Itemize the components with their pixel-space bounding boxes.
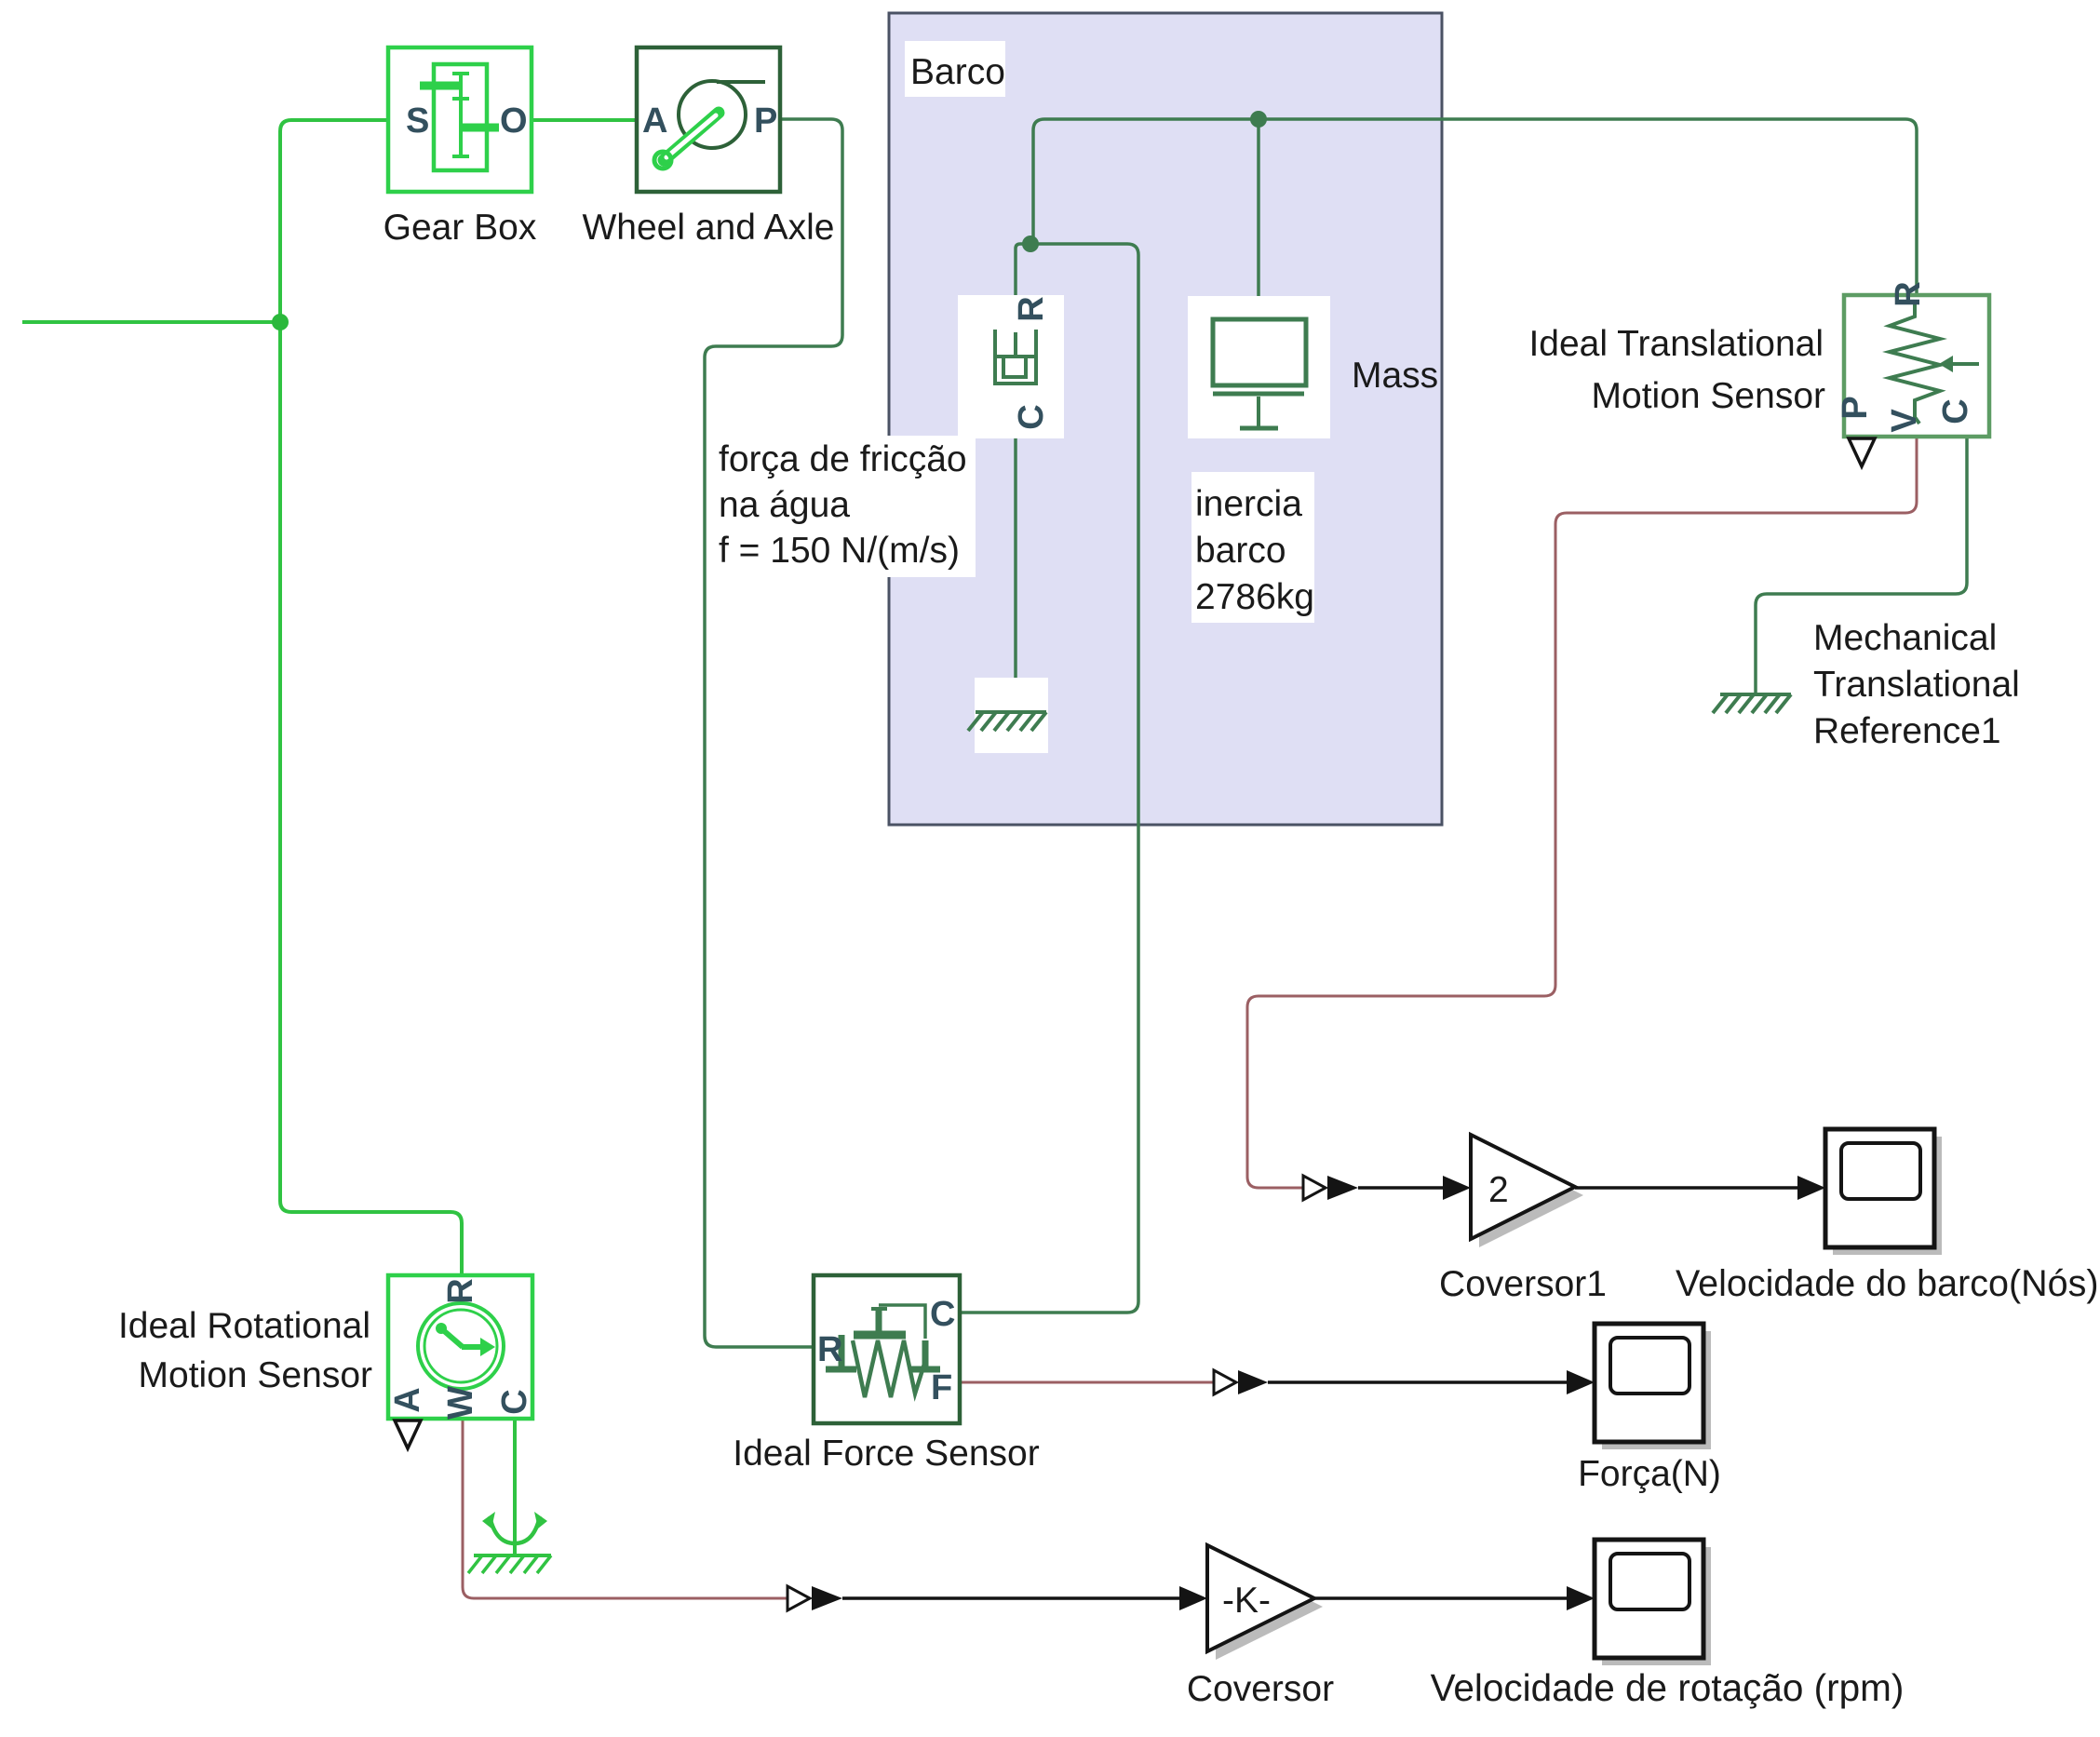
svg-text:C: C: [1936, 398, 1975, 424]
svg-text:Gear Box: Gear Box: [384, 208, 537, 248]
svg-text:Motion Sensor: Motion Sensor: [139, 1355, 372, 1395]
svg-text:2: 2: [1488, 1170, 1509, 1210]
svg-text:Ideal Translational: Ideal Translational: [1528, 324, 1824, 364]
svg-text:Mechanical: Mechanical: [1813, 618, 1997, 658]
svg-text:P: P: [754, 101, 777, 141]
svg-text:f = 150 N/(m/s): f = 150 N/(m/s): [719, 531, 960, 571]
svg-text:na água: na água: [719, 485, 850, 525]
svg-text:R: R: [817, 1330, 842, 1369]
svg-text:força de fricção: força de fricção: [719, 439, 967, 479]
svg-text:W: W: [441, 1386, 480, 1420]
svg-text:Ideal Rotational: Ideal Rotational: [118, 1306, 370, 1346]
svg-text:Mass: Mass: [1352, 356, 1438, 396]
svg-text:P: P: [1836, 396, 1875, 419]
svg-text:O: O: [500, 101, 528, 141]
svg-text:Barco: Barco: [910, 52, 1005, 92]
svg-text:inercia: inercia: [1195, 484, 1302, 524]
svg-text:Velocidade de rotação (rpm): Velocidade de rotação (rpm): [1431, 1666, 1905, 1709]
svg-text:R: R: [1012, 296, 1051, 321]
svg-text:Translational: Translational: [1813, 665, 2020, 705]
svg-text:2786kg: 2786kg: [1195, 577, 1314, 617]
svg-text:Velocidade do barco(Nós): Velocidade do barco(Nós): [1676, 1263, 2099, 1304]
svg-text:Coversor: Coversor: [1187, 1669, 1334, 1709]
svg-text:A: A: [642, 101, 667, 141]
svg-text:R: R: [1889, 281, 1928, 306]
svg-text:C: C: [1012, 404, 1051, 429]
svg-text:Coversor1: Coversor1: [1439, 1264, 1607, 1304]
svg-text:C: C: [930, 1295, 955, 1334]
svg-text:Wheel and Axle: Wheel and Axle: [582, 208, 834, 248]
svg-text:barco: barco: [1195, 531, 1286, 571]
svg-text:A: A: [388, 1387, 427, 1412]
svg-text:Motion Sensor: Motion Sensor: [1592, 376, 1825, 416]
svg-text:Reference1: Reference1: [1813, 711, 2001, 751]
svg-text:-K-: -K-: [1222, 1581, 1271, 1621]
svg-text:F: F: [931, 1368, 952, 1407]
svg-text:C: C: [495, 1389, 534, 1414]
svg-text:Força(N): Força(N): [1578, 1454, 1721, 1494]
svg-text:R: R: [441, 1278, 480, 1303]
svg-text:V: V: [1885, 409, 1924, 433]
svg-text:S: S: [406, 101, 429, 141]
svg-text:Ideal Force Sensor: Ideal Force Sensor: [733, 1434, 1040, 1474]
